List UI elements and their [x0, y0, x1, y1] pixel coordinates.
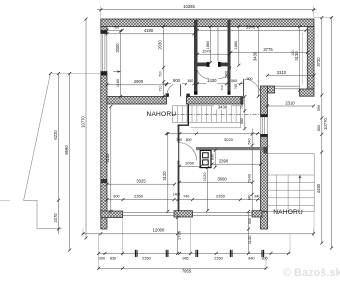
svg-text:1180: 1180: [116, 79, 120, 87]
svg-text:380: 380: [187, 79, 193, 83]
dim room 4180: [106, 28, 196, 35]
dim right 3430: [253, 25, 260, 98]
dim site 10770 left: [80, 18, 87, 240]
svg-text:540: 540: [248, 139, 252, 145]
svg-text:900: 900: [247, 77, 253, 81]
svg-text:2310: 2310: [277, 70, 287, 75]
svg-text:2120: 2120: [202, 172, 207, 182]
dim site 7955: [97, 267, 267, 274]
svg-text:760: 760: [113, 26, 119, 30]
dim chimney 830: [211, 149, 217, 169]
dim right 3130: [294, 25, 301, 92]
svg-text:© Bazoš.sk: © Bazoš.sk: [283, 267, 340, 279]
svg-text:800: 800: [186, 138, 192, 142]
svg-text:2940: 2940: [247, 173, 252, 183]
svg-text:1050: 1050: [185, 161, 195, 166]
dim room 3120: [162, 132, 169, 213]
svg-text:700: 700: [240, 103, 244, 109]
small labels: [220, 50, 295, 90]
dim ext 1730: [176, 213, 182, 255]
partition wc thin divider: [217, 27, 219, 63]
dim site 6220 2470: [53, 72, 60, 234]
stair exterior up arrow: [299, 175, 302, 183]
svg-text:2350: 2350: [214, 257, 222, 261]
svg-text:600: 600: [248, 218, 252, 224]
dim wc1 1880: [206, 25, 212, 64]
svg-text:800: 800: [113, 194, 119, 198]
dim stair 700 800 3020: [165, 132, 261, 142]
door D1 in interior wall: [167, 82, 181, 96]
dim room 2900: [106, 79, 169, 86]
wall interior horizontal right segment: [186, 94, 243, 104]
svg-text:7955: 7955: [182, 269, 192, 274]
svg-text:710: 710: [220, 85, 224, 90]
dim site 8690: [64, 72, 71, 252]
svg-text:3720: 3720: [316, 57, 321, 67]
svg-text:3325: 3325: [136, 179, 146, 184]
text NAHORU exterior: [273, 209, 303, 216]
stair railing: [178, 104, 189, 125]
stair interior outline: [173, 106, 241, 123]
window bottom band right: [193, 213, 253, 216]
svg-text:840: 840: [248, 257, 254, 261]
svg-text:2470: 2470: [53, 213, 58, 223]
dim kitchen 2390: [210, 159, 262, 166]
svg-text:10770: 10770: [80, 116, 85, 128]
svg-text:2350: 2350: [142, 257, 150, 261]
dim wc 1570: [196, 49, 231, 55]
dim room 3775: [229, 47, 308, 54]
chimney block: [200, 150, 211, 167]
svg-text:1400: 1400: [173, 192, 181, 196]
text NAHORU interior: [147, 111, 177, 118]
door D5 right of interior wall: [244, 79, 261, 96]
svg-text:840: 840: [255, 195, 261, 199]
window bottom band left: [123, 213, 175, 216]
svg-text:2900: 2900: [134, 79, 144, 84]
wall left exterior: [100, 27, 107, 230]
extension line top-left horizontal: [49, 72, 101, 75]
door wc arm right leaf: [218, 66, 231, 79]
dim doors 900 380 1430 565: [164, 78, 244, 85]
svg-text:1400: 1400: [224, 71, 228, 78]
wall mid-right top arm: [268, 86, 275, 93]
partition stairwell vertical: [177, 125, 180, 211]
watermark: [283, 267, 340, 279]
wall right exterior: [307, 27, 314, 90]
svg-text:840: 840: [248, 194, 252, 200]
stair lower landing edge: [191, 122, 241, 128]
wall bottom band chunk left: [101, 211, 123, 218]
svg-text:8690: 8690: [64, 145, 69, 155]
wall bottom band chunk right: [252, 211, 262, 217]
partition wc arm horizontal: [194, 62, 231, 67]
svg-text:2350: 2350: [216, 194, 226, 199]
dim wall 760: [106, 26, 124, 32]
dim room 5150: [105, 105, 112, 213]
stair walking dash-dot line: [173, 113, 261, 115]
svg-text:3600: 3600: [217, 177, 227, 182]
window top-right horizontal: [275, 86, 300, 89]
wall bottom band chunk middle: [174, 211, 193, 217]
extension lines top corners: [101, 6, 333, 19]
dim mid 540 2940 840: [247, 129, 254, 212]
property boundary line: [0, 74, 62, 229]
svg-text:1430: 1430: [207, 78, 217, 83]
dim mid 700 880: [240, 95, 246, 130]
svg-text:NAHORU: NAHORU: [273, 209, 303, 216]
wall right L-foot: [300, 89, 315, 96]
dim site 10770 right: [323, 16, 333, 250]
niche line right room: [302, 33, 304, 85]
svg-text:12000: 12000: [153, 227, 165, 232]
svg-text:10265: 10265: [183, 4, 195, 9]
svg-text:740: 740: [234, 84, 238, 90]
dim right 2310 upper: [266, 70, 316, 77]
svg-text:565: 565: [231, 79, 237, 83]
svg-text:985: 985: [182, 257, 188, 261]
svg-text:880: 880: [240, 118, 244, 124]
svg-text:NAHORU: NAHORU: [147, 111, 177, 118]
dim bottom interior chain: [106, 192, 261, 201]
svg-text:700: 700: [159, 71, 163, 77]
svg-text:2390: 2390: [219, 159, 229, 164]
kitchen counter wall: [196, 147, 267, 154]
svg-text:880: 880: [317, 125, 321, 131]
dim left room 2000 1180: [113, 30, 122, 99]
svg-text:10770: 10770: [323, 118, 328, 130]
door D4 stairwell wall: [179, 143, 197, 161]
svg-text:3120: 3120: [162, 171, 167, 181]
dim bottom survey chain: [97, 252, 290, 261]
svg-text:740: 740: [183, 195, 189, 199]
svg-text:3430: 3430: [218, 105, 228, 110]
dim room 3325: [106, 179, 177, 186]
dim ext 600 1130: [247, 210, 252, 255]
svg-text:3430: 3430: [253, 51, 258, 61]
svg-text:300: 300: [261, 257, 267, 261]
svg-text:1730: 1730: [177, 230, 182, 240]
svg-text:5345: 5345: [246, 25, 256, 30]
dim site 12000: [82, 227, 316, 235]
svg-text:1880: 1880: [206, 41, 210, 49]
svg-text:1880: 1880: [234, 41, 238, 49]
svg-text:3020: 3020: [224, 137, 234, 142]
svg-text:900: 900: [173, 78, 181, 83]
wall interior horizontal left segment: [107, 93, 169, 104]
stair exterior outline: [268, 154, 314, 212]
dim right 3720 880 4480: [316, 16, 323, 245]
svg-text:590: 590: [317, 105, 321, 111]
dim overall top 10265: [97, 4, 317, 11]
wall mid-right vertical: [260, 86, 268, 212]
svg-text:120: 120: [291, 50, 295, 56]
svg-text:4480: 4480: [316, 183, 321, 193]
wall top exterior: [101, 19, 314, 27]
svg-text:710: 710: [159, 86, 163, 92]
dim wc2 1880: [234, 25, 240, 67]
svg-text:3775: 3775: [263, 47, 273, 52]
survey pegs: [135, 250, 264, 257]
svg-text:2030: 2030: [158, 40, 163, 50]
svg-text:5150: 5150: [105, 153, 110, 163]
door wc arm left leaf: [197, 66, 210, 79]
svg-text:830: 830: [110, 257, 116, 261]
dim left room 2030 700 710: [158, 25, 165, 98]
svg-text:2350: 2350: [134, 194, 144, 199]
dim right 2310 lower: [265, 100, 316, 107]
wall mid-right bottom extension: [261, 212, 268, 230]
extension lines bottom: [83, 211, 314, 270]
svg-text:6220: 6220: [53, 130, 58, 140]
svg-text:2310: 2310: [285, 100, 295, 105]
dim door 1050: [178, 161, 202, 168]
dim room 3600: [178, 177, 254, 184]
partition wc left: [194, 20, 198, 95]
stair 3430 label: [214, 105, 231, 110]
svg-text:2000: 2000: [115, 43, 120, 53]
svg-text:300: 300: [99, 257, 105, 261]
dim top 5345: [196, 25, 308, 32]
svg-text:700: 700: [176, 138, 182, 142]
svg-text:830: 830: [211, 154, 215, 160]
partition wc right vertical: [228, 20, 231, 95]
dim kitchen 2120: [202, 166, 209, 212]
svg-text:4180: 4180: [144, 28, 154, 33]
svg-text:1130: 1130: [247, 235, 252, 244]
